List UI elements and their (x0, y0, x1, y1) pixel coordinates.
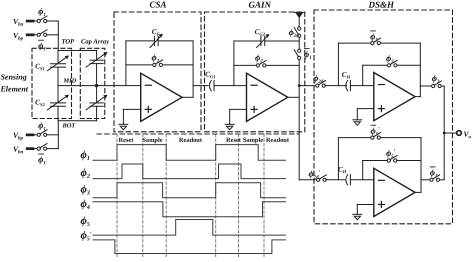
waveform phi5-prime (93, 240, 287, 254)
switch phi1 (Vbp bottom) (37, 133, 40, 136)
GAIN output wire from apex (288, 96, 299, 98)
svg-text:MID: MID (62, 78, 76, 85)
svg-text:Element: Element (0, 84, 29, 93)
svg-text:Reset: Reset (119, 137, 135, 144)
svg-text:Sensing: Sensing (0, 73, 26, 82)
ground (CSA + input) (123, 108, 140, 110)
svg-text:GAIN: GAIN (248, 0, 271, 10)
CSA feedback riser (125, 41, 127, 86)
DS&H dashed box (314, 10, 453, 224)
ground (U3 + input) (357, 108, 374, 110)
trunk wire to bottom S/H input (299, 179, 316, 181)
CSA output rail (182, 96, 193, 98)
GAIN output rail / trunk (298, 37, 300, 49)
wire: top switches to TOP rail (57, 21, 59, 51)
waveform phi2 (93, 164, 287, 179)
capacitor CG1 (coupling) (193, 85, 208, 87)
inner feedback rail with phi5-prime switch (bottom) (362, 161, 364, 180)
cap array bottom capacitor (96, 86, 98, 103)
GAIN output tap wire (299, 85, 316, 87)
U4 output rail (415, 191, 421, 193)
svg-text:Sample: Sample (243, 137, 263, 144)
switch phi1 (Vbn top) (37, 19, 40, 22)
timing frame top dashed line (97, 133, 299, 135)
node BOT rail (58, 120, 97, 122)
outer feedback rail with phi5bar-prime switch (bottom) (337, 138, 339, 180)
sensing element dashed box (32, 48, 72, 118)
switch phi2 (GAIN reset, inner feedback) (234, 64, 256, 66)
switch phi1bar (Vbp top) (37, 33, 40, 36)
svg-text:Sample: Sample (142, 137, 162, 144)
op-amp U3 (DS&H top) (374, 73, 415, 121)
GAIN dashed box (205, 12, 305, 132)
svg-text:BOT: BOT (61, 122, 76, 129)
CSA dashed box (114, 12, 201, 132)
svg-text:Reset: Reset (226, 137, 242, 144)
waveform phi4 (93, 202, 287, 217)
switch phiM (reset to reference) (298, 18, 300, 27)
capacitor CF (outer feedback) (126, 40, 154, 42)
GAIN feedback riser (233, 41, 235, 86)
switch phi1bar (Vbn bottom) (37, 147, 40, 150)
svg-text:Readout: Readout (266, 137, 290, 144)
op-amp U1 (CSA) (141, 73, 182, 121)
op-amp U2 (GAIN) (247, 73, 288, 121)
capacitor CS1 (57, 51, 59, 64)
node MID rail (58, 85, 141, 87)
capacitor CH (top) (346, 80, 348, 90)
wire: BOT rail to bottom switches (57, 121, 59, 149)
reference symbol (Vref) (294, 11, 304, 13)
cap array top capacitor (96, 51, 98, 61)
switch phi2d (top S/H input) (316, 84, 319, 87)
output terminal Vo (443, 132, 446, 135)
op-amp U4 (DS&H bottom) (374, 168, 415, 216)
cap array dashed box (80, 48, 105, 118)
waveform phi1 (93, 145, 287, 161)
switch phi3bar (bottom output) (421, 179, 430, 181)
node TOP rail (58, 50, 97, 52)
timing dashed phase dividers (116, 134, 118, 258)
outer feedback rail with phi5bar switch (top) (337, 43, 339, 86)
capacitor CG2 (outer feedback) (234, 40, 261, 42)
junction dot MID/array (95, 84, 98, 87)
svg-text:Cap Array: Cap Array (81, 39, 109, 46)
ground (U4 + input) (357, 203, 374, 205)
switch phi1bar (GAIN output) (298, 49, 301, 52)
waveform phi3 (93, 183, 287, 198)
svg-text:Readout: Readout (179, 137, 203, 144)
switch phi3 (top output) (420, 85, 431, 87)
svg-text:CSA: CSA (149, 0, 166, 10)
capacitor CH (bottom) (346, 175, 348, 185)
switch phi2d-prime (bottom S/H input) (317, 178, 320, 181)
switch phi2 (CSA reset, inner feedback) (126, 64, 153, 66)
inner feedback rail with phi5 switch (top) (362, 65, 364, 85)
capacitor CS2 (50, 102, 65, 104)
U3 output rail (415, 96, 420, 98)
ground (GAIN + input) (230, 108, 247, 110)
waveform phi5 (93, 220, 287, 236)
svg-text:DS&H: DS&H (367, 0, 395, 10)
svg-text:TOP: TOP (61, 39, 75, 46)
